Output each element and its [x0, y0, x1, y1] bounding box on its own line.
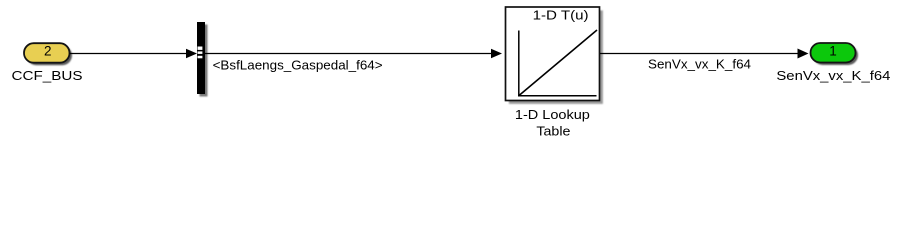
inport block 2 (CCF_BUS) [24, 43, 72, 65]
svg-text:CCF_BUS: CCF_BUS [12, 68, 83, 83]
svg-text:1-D T(u): 1-D T(u) [533, 8, 589, 23]
svg-text:2: 2 [44, 44, 52, 59]
svg-text:SenVx_vx_K_f64: SenVx_vx_K_f64 [776, 68, 890, 83]
wire from inport to bus selector [70, 49, 198, 59]
wire from lookup table to outport [600, 49, 809, 59]
bus selector [197, 22, 208, 97]
svg-text:Table: Table [536, 124, 570, 139]
svg-text:1: 1 [829, 44, 837, 59]
outport block 1 (SenVx_vx_K_f64) [811, 43, 859, 65]
label 1-D Lookup Table [515, 107, 590, 139]
1-D lookup table block [506, 7, 603, 104]
svg-text:SenVx_vx_K_f64: SenVx_vx_K_f64 [648, 57, 751, 72]
wire from bus selector to lookup table [205, 49, 502, 59]
svg-text:<BsfLaengs_Gaspedal_f64>: <BsfLaengs_Gaspedal_f64> [213, 57, 383, 72]
svg-text:1-D Lookup: 1-D Lookup [515, 107, 590, 122]
